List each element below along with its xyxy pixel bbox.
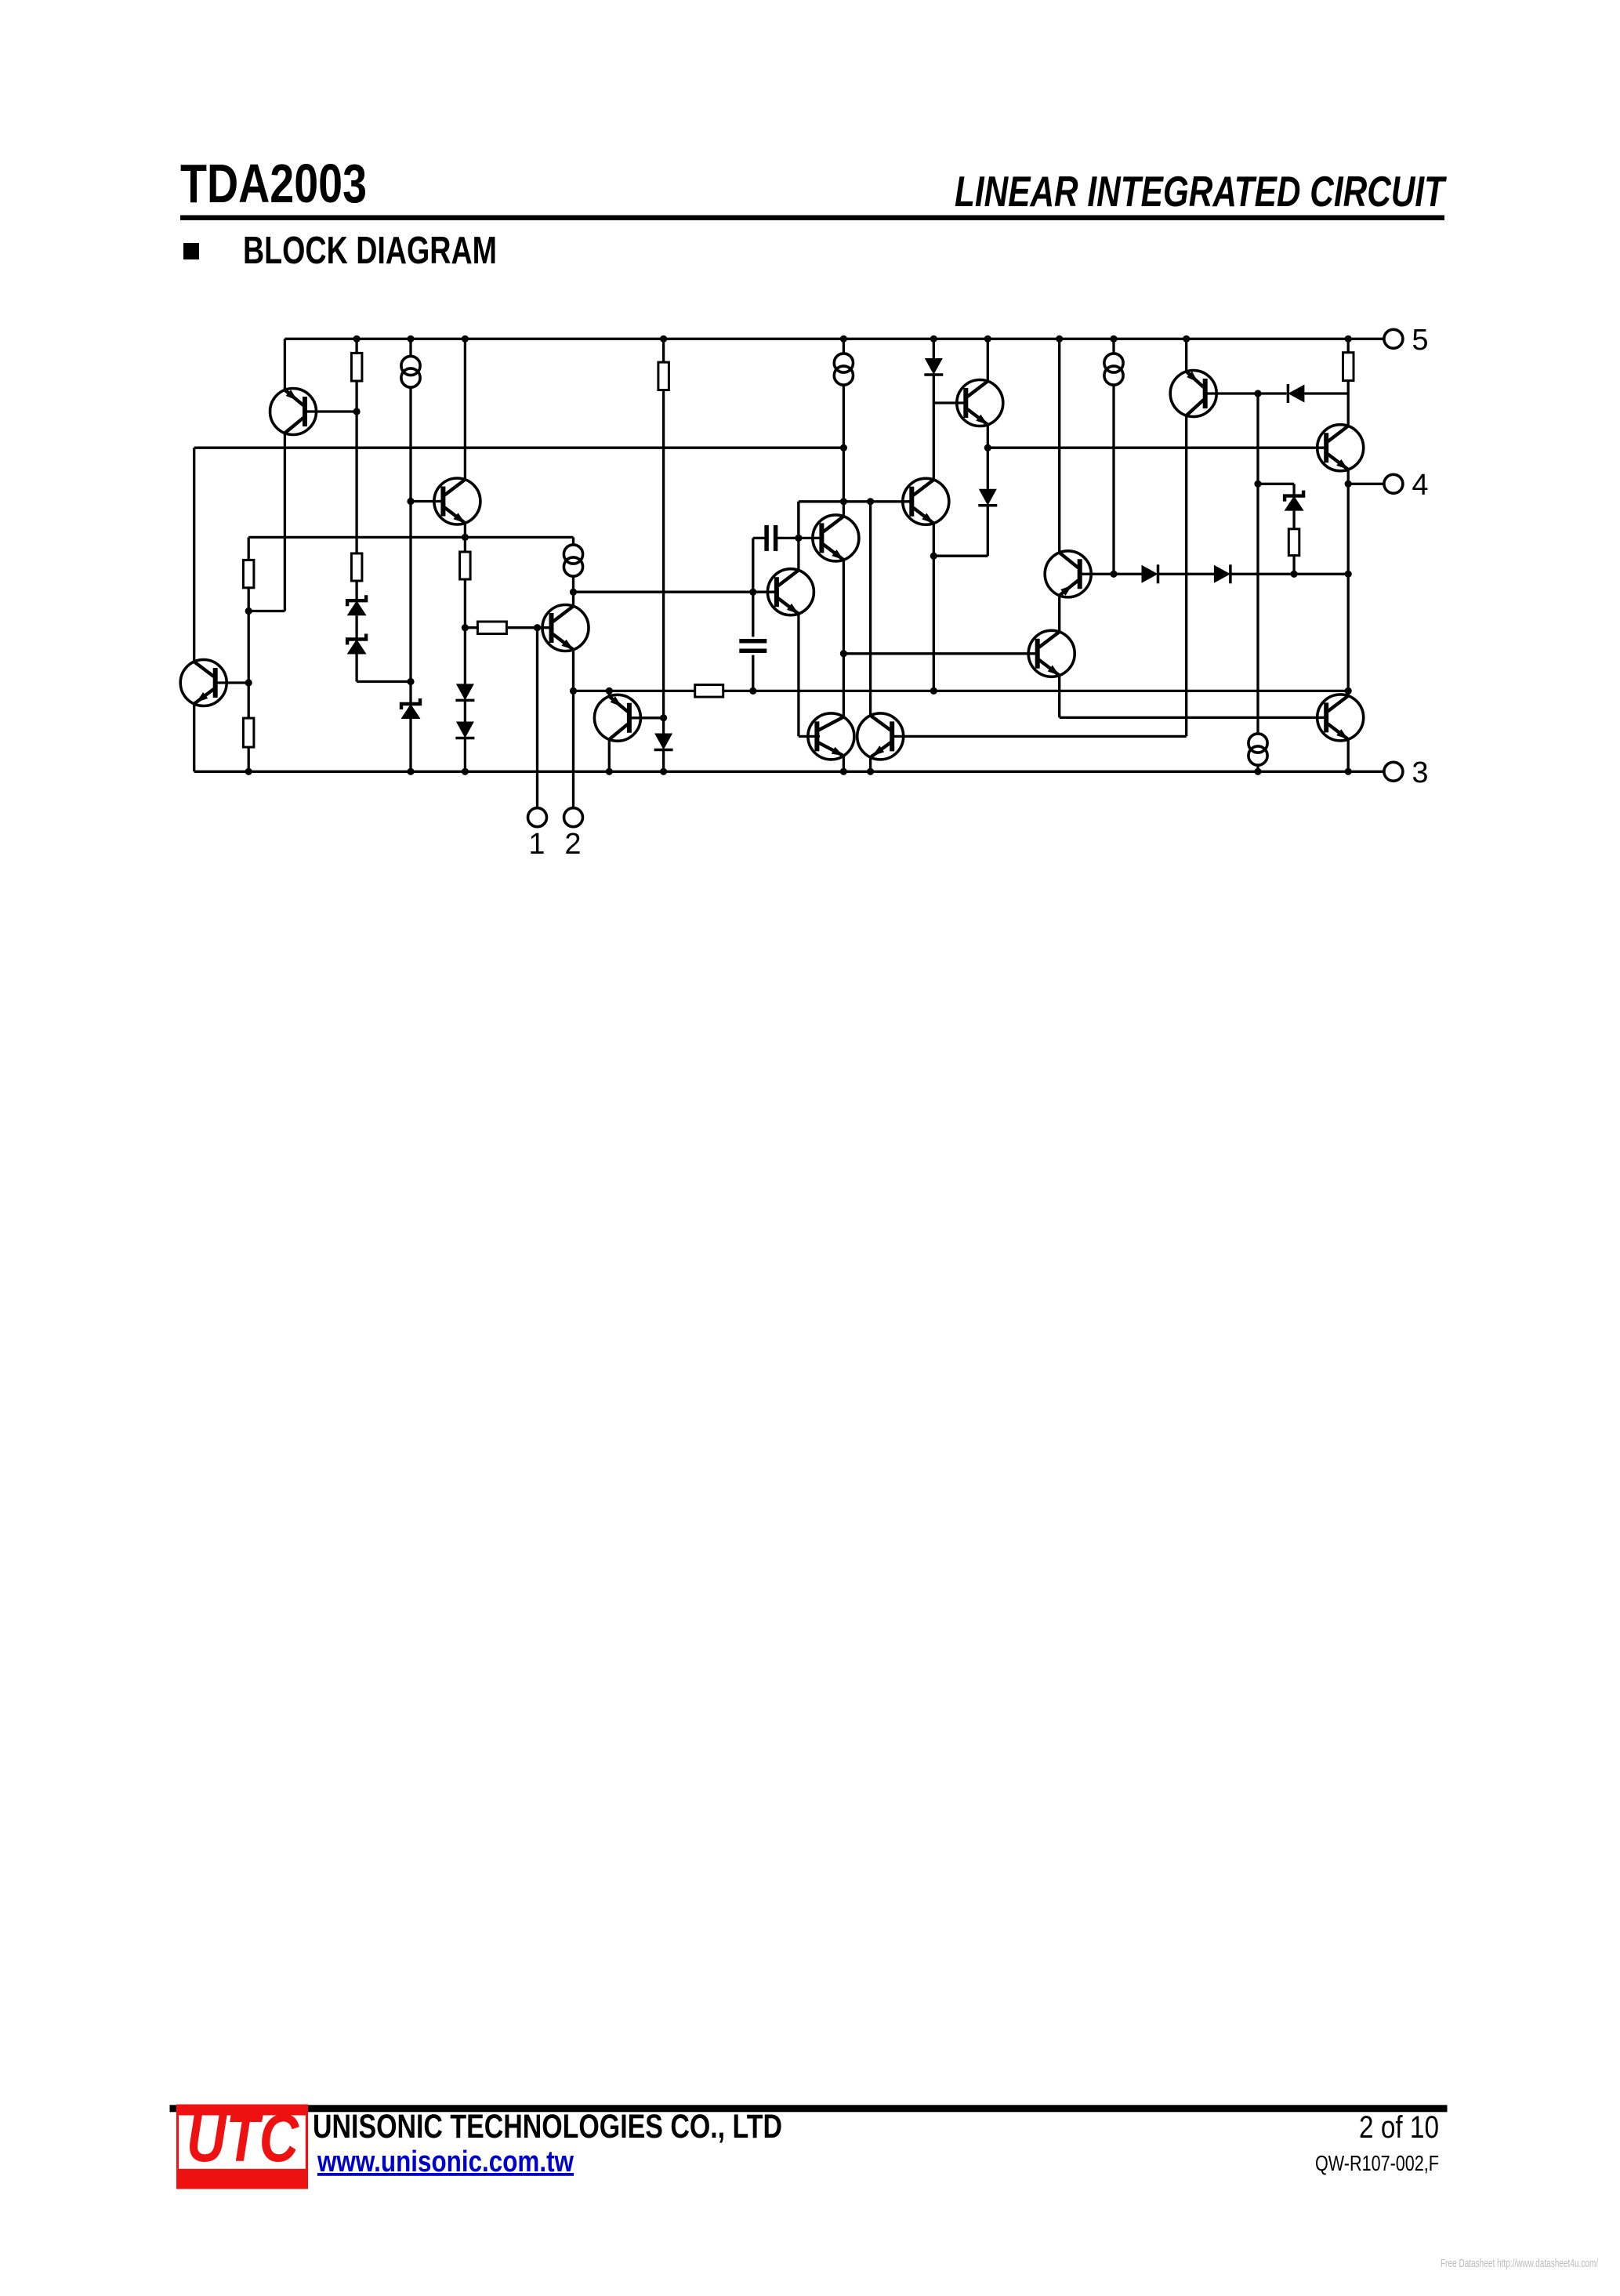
current source CS3 (834, 354, 853, 385)
wire (248, 537, 250, 560)
wire (1292, 511, 1295, 529)
wire (797, 502, 799, 539)
wire (465, 626, 477, 629)
resistor R3 (460, 550, 471, 579)
junction (1254, 768, 1261, 775)
transistor Q2 (434, 478, 480, 524)
pin 4 (1384, 469, 1429, 502)
capacitor C1 (767, 525, 776, 551)
current source CS1 (401, 356, 420, 387)
wire Q9 base rail (843, 500, 911, 502)
junction (660, 768, 667, 775)
pin 3 (1384, 756, 1429, 789)
wire (1256, 765, 1259, 771)
junction (462, 624, 469, 631)
svg-text:UTC: UTC (187, 2101, 300, 2176)
wire (464, 579, 466, 684)
wire pin1 lead (536, 628, 538, 809)
wire (987, 506, 989, 556)
junction (1291, 571, 1298, 578)
wire (987, 425, 989, 489)
current source CS5 (1249, 734, 1267, 765)
diode D1 (924, 358, 943, 375)
wire (248, 536, 573, 539)
UTC logo (176, 2101, 308, 2189)
junction (930, 553, 937, 560)
resistor R2 (351, 552, 362, 581)
wire (797, 502, 799, 571)
wire (355, 381, 357, 553)
wire (248, 747, 250, 771)
wire Q16 base (893, 735, 1187, 738)
wire (797, 614, 799, 737)
diode D6 (1214, 564, 1230, 583)
wire (572, 575, 574, 606)
wire (1258, 483, 1294, 485)
wire (608, 691, 611, 696)
junction (407, 336, 414, 343)
junction (867, 768, 874, 775)
junction (1254, 390, 1261, 397)
section bullet (183, 243, 199, 259)
footer rule (170, 2105, 1448, 2112)
junction (749, 589, 756, 596)
junction (840, 650, 847, 657)
zener diode Z4 (1285, 491, 1304, 511)
wire (662, 750, 665, 772)
wire (843, 560, 845, 717)
wire (1082, 573, 1143, 575)
junction (606, 687, 613, 695)
wire mid rail right (988, 447, 1326, 449)
transistor Q12 (1170, 371, 1216, 417)
diode D7 (1288, 384, 1304, 403)
wire Q12 base (1207, 392, 1286, 394)
junction (245, 768, 252, 775)
zener diode Z2 (347, 634, 367, 655)
junction (1345, 336, 1352, 343)
svg-text:3: 3 (1412, 756, 1428, 789)
wire Q1 base (306, 410, 357, 412)
resistor R5 (243, 716, 254, 747)
wire (752, 538, 754, 637)
wire (869, 757, 872, 772)
junction (353, 408, 361, 415)
diode D3 (455, 684, 474, 700)
junction (570, 589, 577, 596)
junction (1345, 768, 1352, 775)
junction (660, 336, 667, 343)
junction (1254, 481, 1261, 488)
wire (843, 339, 845, 354)
junction (606, 768, 613, 775)
wire (1347, 381, 1350, 426)
junction (930, 687, 937, 695)
wire top supply rail (284, 338, 1385, 340)
wire (355, 615, 357, 639)
svg-text:LINEAR INTEGRATED CIRCUIT: LINEAR INTEGRATED CIRCUIT (955, 167, 1447, 216)
wire (284, 433, 286, 611)
diode D8 (654, 734, 673, 750)
svg-text:TDA2003: TDA2003 (180, 153, 367, 214)
wire Q13b base (1060, 716, 1327, 719)
wire (1292, 484, 1295, 495)
junction (930, 336, 937, 343)
capacitor C2 (739, 641, 767, 651)
wire (464, 700, 466, 721)
junction (570, 687, 577, 695)
transistor Q5 (813, 515, 859, 561)
junction (1110, 571, 1117, 578)
wire (1158, 573, 1215, 575)
wire (1058, 339, 1060, 553)
junction (840, 336, 847, 343)
wire Q2 base (411, 500, 443, 502)
junction (245, 608, 252, 615)
wire (572, 537, 574, 545)
wire (753, 537, 765, 539)
transistor Q4 (542, 605, 589, 651)
wire (1112, 339, 1114, 354)
svg-text:2: 2 (564, 828, 581, 861)
junction (1056, 336, 1063, 343)
junction (353, 336, 361, 343)
wire (933, 524, 935, 691)
svg-text:Free Datasheet http://www.data: Free Datasheet http://www.datasheet4u.co… (1441, 2258, 1599, 2270)
junction (1345, 481, 1352, 488)
junction (984, 336, 991, 343)
wire (1058, 676, 1060, 718)
wire (843, 756, 845, 771)
diode D2 (978, 489, 997, 506)
wire ground rail (194, 771, 1385, 773)
wire (662, 390, 665, 734)
wire (662, 339, 665, 362)
wire (284, 339, 286, 390)
transistor Q8 (957, 380, 1003, 426)
resistor R9 (1288, 528, 1299, 556)
pin 2 (564, 808, 583, 861)
wire (1292, 556, 1295, 575)
wire (933, 375, 935, 480)
junction (1345, 571, 1352, 578)
wire (1347, 470, 1350, 696)
wire Q8 base (933, 401, 966, 404)
transistor Q1 (270, 389, 317, 435)
wire (933, 339, 935, 358)
wire (409, 719, 411, 771)
resistor R4 (243, 558, 254, 587)
wire (357, 680, 411, 683)
wire (608, 739, 611, 771)
junction (1110, 336, 1117, 343)
junction (1183, 336, 1190, 343)
wire (409, 339, 411, 357)
svg-text:QW-R107-002,F: QW-R107-002,F (1315, 2151, 1439, 2175)
junction (795, 535, 802, 542)
wire Q4 base (508, 626, 552, 629)
wire Q10 base (843, 652, 1037, 655)
wire (193, 448, 195, 662)
wire (799, 500, 844, 502)
wire (464, 339, 466, 480)
junction (407, 498, 414, 505)
junction (840, 498, 847, 505)
wire (1185, 339, 1187, 372)
wire (1256, 394, 1259, 734)
wire (1112, 385, 1114, 574)
junction (245, 679, 252, 686)
junction (1345, 687, 1352, 695)
resistor R6 (477, 622, 506, 634)
svg-text:5: 5 (1412, 324, 1428, 357)
wire (464, 523, 466, 552)
wire (355, 655, 357, 682)
resistor R8 (1343, 351, 1354, 381)
wire (355, 339, 357, 353)
svg-text:4: 4 (1412, 469, 1428, 502)
wire (572, 650, 574, 809)
junction (840, 768, 847, 775)
junction (840, 444, 847, 452)
junction (462, 768, 469, 775)
svg-text:www.unisonic.com.tw: www.unisonic.com.tw (317, 2145, 574, 2178)
junction (984, 444, 991, 452)
wire (1347, 339, 1350, 352)
zener diode Z3 (401, 698, 421, 719)
junction (534, 624, 541, 631)
wire (1230, 573, 1348, 575)
transistor Q10 (1028, 630, 1075, 676)
transistor Q13 (1317, 425, 1364, 471)
wire (574, 591, 777, 593)
resistor R1 (351, 351, 362, 381)
wire Q15 base (799, 735, 820, 738)
wire (248, 588, 250, 718)
pin 5 (1384, 324, 1429, 357)
wire (1058, 596, 1060, 633)
transistor Q15 (808, 713, 854, 760)
svg-text:1: 1 (528, 828, 545, 861)
junction (462, 336, 469, 343)
diode D4 (455, 722, 474, 738)
svg-text:UNISONIC TECHNOLOGIES CO., LTD: UNISONIC TECHNOLOGIES CO., LTD (313, 2108, 782, 2145)
transistor Q9 (903, 478, 949, 524)
wire pin4 lead (1348, 483, 1385, 485)
wire (409, 387, 411, 704)
wire (987, 339, 989, 381)
wire Q7 base (629, 716, 664, 719)
wire feedback (723, 690, 1348, 692)
current source CS2 (564, 545, 582, 576)
junction (407, 768, 414, 775)
wire Q3 base (216, 681, 248, 684)
svg-text:BLOCK DIAGRAM: BLOCK DIAGRAM (243, 230, 497, 272)
wire (843, 385, 845, 517)
transistor Q17 (1317, 695, 1364, 741)
wire (933, 555, 988, 557)
wire (355, 581, 357, 600)
transistor Q6 (767, 569, 814, 615)
wire (869, 502, 872, 716)
transistor Q14 (1045, 551, 1091, 597)
wire (248, 610, 284, 612)
wire (752, 655, 754, 691)
junction (462, 534, 469, 541)
junction (660, 714, 667, 721)
wire feedback (574, 690, 695, 692)
pin 1 (528, 808, 547, 861)
wire (1347, 739, 1350, 771)
transistor Q3 (180, 660, 227, 706)
junction (407, 678, 414, 685)
junction (749, 687, 756, 695)
resistor Rb (658, 361, 669, 390)
resistor R7 (695, 685, 723, 698)
wire mid rail left (194, 447, 844, 449)
wire (777, 537, 821, 539)
wire (1185, 415, 1187, 736)
transistor Q7 (594, 695, 640, 741)
svg-text:2 of 10: 2 of 10 (1359, 2110, 1439, 2145)
wire (193, 704, 195, 771)
wire (464, 738, 466, 772)
wire (1304, 392, 1348, 394)
current source CS4 (1104, 354, 1123, 385)
diode D5 (1142, 564, 1158, 583)
header rule (180, 216, 1444, 221)
transistor Q16 (857, 713, 904, 760)
junction (867, 498, 874, 505)
zener diode Z1 (347, 595, 367, 615)
